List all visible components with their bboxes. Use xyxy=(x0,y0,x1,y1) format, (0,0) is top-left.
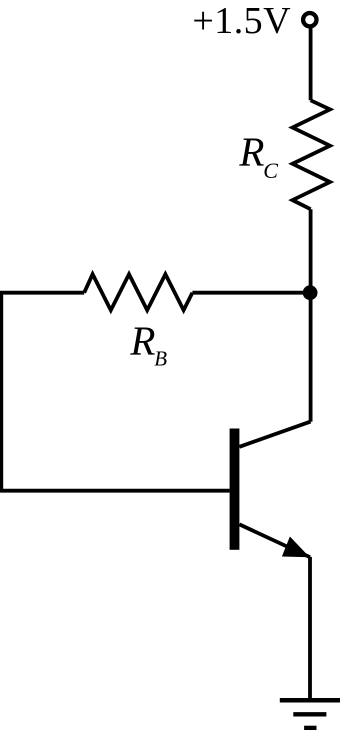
svg-text:R: R xyxy=(238,128,264,174)
svg-text:R: R xyxy=(129,317,155,363)
svg-text:B: B xyxy=(154,347,167,371)
svg-text:+1.5V: +1.5V xyxy=(192,0,291,42)
svg-text:C: C xyxy=(263,158,278,183)
